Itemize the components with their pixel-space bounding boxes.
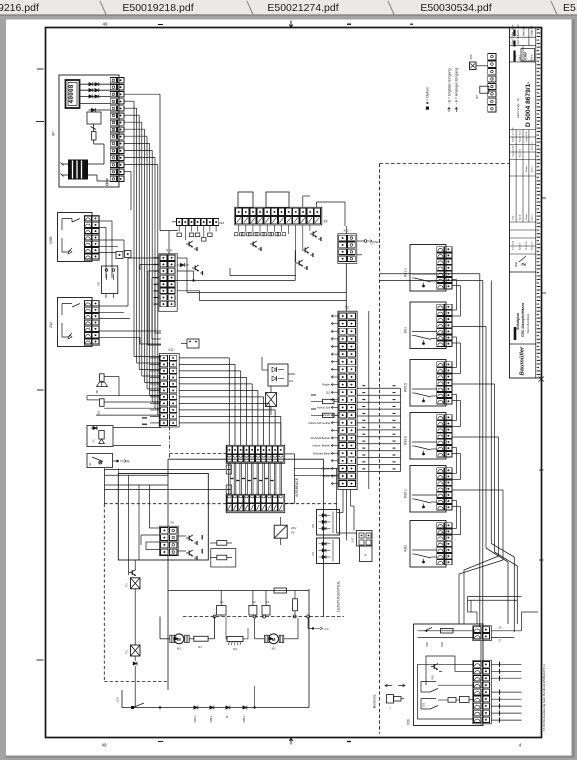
- X11 left stubs: [150, 357, 159, 359]
- svg-text:Datum: Datum: [525, 165, 528, 172]
- relay K80.1 box: [410, 466, 446, 513]
- X5 right transistor Q5: [178, 535, 186, 537]
- svg-text:9216.pdf: 9216.pdf: [0, 2, 39, 14]
- svg-text:K80: K80: [404, 545, 408, 551]
- svg-text:Lst 17.04: Lst 17.04: [512, 240, 515, 250]
- wire S1 right arrow B: [113, 460, 118, 462]
- connector X17: [357, 531, 373, 547]
- svg-text:Blatt: Blatt: [515, 262, 518, 267]
- transformer T1: [68, 160, 88, 180]
- junction dashed rail: [183, 616, 344, 618]
- module A1 display unit box: [59, 75, 119, 187]
- svg-text:Zust.: Zust.: [512, 215, 515, 220]
- display H1 40008: [66, 80, 80, 108]
- resistor R6: [217, 555, 227, 560]
- switch S31 loop: [421, 682, 436, 693]
- svg-text:K1: K1: [220, 600, 224, 604]
- tab bar: [0, 0, 577, 15]
- terminal X6: [116, 252, 123, 259]
- svg-text:Gepr. 20.4: Gepr. 20.4: [525, 131, 528, 142]
- connector X32 main strip: [473, 660, 492, 724]
- relay interconnect wires: [456, 280, 458, 311]
- svg-text:M: M: [177, 637, 181, 642]
- ribbon wire labels: [231, 478, 234, 480]
- svg-text:→D = Digitaler Eingang: →D = Digitaler Eingang: [448, 68, 452, 106]
- connector X2 tall strip: [338, 311, 357, 489]
- svg-text:B: B: [127, 460, 129, 464]
- long wire row middle: [170, 280, 296, 282]
- svg-text:Datum: Datum: [525, 213, 528, 220]
- relay K80.8 connector: [437, 415, 444, 420]
- switch S1 box: [87, 454, 113, 468]
- relay K80.8 contact: [415, 446, 432, 450]
- diode D10 beside X10: [180, 263, 184, 267]
- wire X6 X7 down: [111, 247, 113, 278]
- svg-text:X9: X9: [324, 220, 328, 224]
- tab separators: [100, 1, 106, 15]
- interface left tag boxes: [226, 465, 232, 474]
- connector X14 upper interface strip: [226, 445, 285, 463]
- wire X1 row wires right: [124, 93, 160, 95]
- title block outer: [510, 28, 542, 379]
- svg-text:S32: S32: [422, 702, 426, 707]
- svg-text:S1: S1: [88, 462, 92, 466]
- svg-text:+1.8: +1.8: [116, 697, 120, 703]
- svg-text:K3: K3: [266, 600, 270, 604]
- svg-text:R30: R30: [440, 642, 444, 647]
- X32 right wires with ticks: [491, 663, 521, 665]
- switch S2 on rail: [133, 703, 144, 708]
- title block header legal bars: [513, 30, 515, 37]
- wires to relay column upper: [380, 273, 453, 275]
- title block dense right text column: [535, 28, 537, 379]
- svg-text:Tag 21.4.09: Tag 21.4.09: [513, 145, 515, 157]
- svg-text:Datum 17.4.09: Datum 17.4.09: [512, 127, 515, 142]
- svg-text:INTERFACE: INTERFACE: [295, 477, 299, 497]
- cluster vertical feed wires: [104, 468, 106, 504]
- X17 lower box: [360, 546, 373, 562]
- svg-text:2.2: 2.2: [324, 627, 329, 631]
- relay K80.1 inner wires: [431, 501, 437, 503]
- svg-text:Aufsch.Soll: Aufsch.Soll: [317, 406, 330, 410]
- title block pointer tick: [542, 197, 547, 199]
- connector X4: [85, 301, 92, 306]
- svg-text:M: M: [272, 637, 276, 642]
- relay K81.1 box: [410, 245, 446, 292]
- nested corner wires below X10: [148, 318, 161, 345]
- svg-text:Aend 2: Aend 2: [519, 242, 522, 250]
- power supply U4 diag box: [274, 525, 287, 538]
- wires relay bottom to box top: [468, 596, 522, 598]
- X1 ground lead bottom: [106, 178, 108, 184]
- svg-text:Bearb. Kern: Bearb. Kern: [519, 130, 522, 142]
- emergency stop box S50: [470, 62, 477, 70]
- M1 terminal pads: [170, 635, 175, 642]
- X11 crossing wires right: [179, 357, 230, 359]
- svg-text:opt: opt: [475, 95, 479, 99]
- svg-text:Ers.d.: Ers.d.: [531, 54, 534, 61]
- X32 inner vertical bus: [443, 656, 445, 692]
- module A3 RS232 box: [58, 298, 93, 347]
- svg-text:M2: M2: [272, 647, 276, 651]
- transistor Q7 above F1: [129, 572, 132, 574]
- svg-text:gn²: gn²: [51, 130, 55, 136]
- svg-text:X30: X30: [407, 719, 411, 725]
- arrow pair direction: [385, 684, 392, 687]
- bus hatch right border: [400, 388, 402, 471]
- transistor Q8: [250, 243, 253, 245]
- relay K80.5 box: [410, 360, 446, 407]
- interface right bracket: [285, 454, 295, 503]
- diode module W1 box: [268, 364, 288, 386]
- relay K80.5 connector: [437, 362, 444, 367]
- fuse F3 box: [266, 393, 277, 407]
- svg-text:Drehzahl Betrieb: Drehzahl Betrieb: [311, 436, 331, 440]
- X9 leads to transistors: [288, 225, 290, 234]
- X10 left tag labels: [154, 257, 158, 259]
- svg-text:F1: F1: [125, 583, 129, 587]
- X2 left arrow stubs and labels: [332, 315, 338, 317]
- relay K81.1 inner wires: [431, 280, 437, 282]
- transistor Q9 beside X10: [192, 267, 195, 269]
- inner box lower-left: [118, 474, 208, 561]
- svg-text:Y1: Y1: [92, 439, 96, 443]
- loop wire rectangles above X9: [238, 192, 253, 208]
- fuse F1: [131, 578, 141, 589]
- wires X3 to right: [99, 220, 112, 222]
- svg-text:E50019218.pdf: E50019218.pdf: [122, 2, 193, 14]
- dashed feed line lower: [104, 503, 226, 505]
- svg-text:Aufsch- Betrieb: Aufsch- Betrieb: [312, 444, 330, 448]
- svg-text:E5: E5: [563, 2, 576, 14]
- sensor B2: [100, 399, 105, 407]
- svg-text:m: m: [95, 390, 99, 393]
- connector X10: [159, 254, 177, 311]
- connector X31 small strip: [473, 626, 492, 641]
- relay K81 box: [410, 302, 446, 349]
- svg-text:Schaltplan: Schaltplan: [516, 313, 520, 330]
- dashed feed line upper: [170, 453, 227, 455]
- wires under X8: [127, 258, 129, 306]
- wires entering box top: [480, 641, 482, 661]
- X31 internal wires switch: [418, 630, 473, 632]
- wire to X2 top: [187, 291, 346, 293]
- transformer leads: [62, 163, 68, 165]
- diodes below F2: [134, 656, 136, 661]
- relay K80.8 inner wires: [431, 448, 437, 450]
- X3 frame: [84, 216, 99, 261]
- wire labels 115: [142, 417, 147, 419]
- wire bus from X1 down-left bundle: [124, 100, 134, 102]
- resistor R5: [217, 541, 227, 546]
- svg-text:Ers.f.: Ers.f.: [519, 55, 522, 61]
- svg-text:V30: V30: [431, 675, 435, 680]
- svg-text:S: S: [364, 553, 366, 557]
- X5 left wires: [149, 527, 159, 529]
- relay K80.1 connector: [437, 468, 444, 473]
- A3 internal contacts: [62, 304, 72, 316]
- frame fold ticks left: [37, 68, 44, 70]
- resistor R2 with hatch pad: [227, 636, 243, 641]
- svg-text:Name br: Name br: [519, 148, 522, 157]
- svg-text:M1: M1: [177, 647, 181, 651]
- contact boxes K row: [217, 606, 227, 616]
- dashed border leistungsteil vertical left: [103, 504, 105, 682]
- wire top rail power: [168, 590, 309, 592]
- optocoupler U6 box: [317, 538, 340, 564]
- connector X3: [85, 216, 92, 221]
- svg-text:R1: R1: [198, 645, 202, 649]
- svg-text:CRC Stampfer/Hänne: CRC Stampfer/Hänne: [521, 303, 525, 337]
- sensor wires: [87, 395, 161, 397]
- X16 hanging leads: [178, 226, 180, 232]
- svg-text:R3: R3: [233, 647, 237, 651]
- module box around lower cluster: [167, 459, 169, 690]
- svg-text:Name: Name: [532, 213, 534, 220]
- X17 feed wires: [337, 532, 357, 534]
- wire rail verticals: [220, 591, 222, 599]
- wires X10 left: [131, 257, 159, 259]
- svg-text:Drehzahl Band: Drehzahl Band: [313, 451, 331, 455]
- wire X16 to A1 bus: [172, 221, 177, 223]
- resistor R31 R32: [448, 698, 456, 703]
- svg-text:3M1.2: 3M1.2: [193, 715, 197, 723]
- bottom rail wire: [122, 707, 309, 709]
- bus vertical crossing: [368, 311, 370, 489]
- transistor Q30: [431, 666, 434, 668]
- connector X16 strip: [177, 219, 182, 226]
- relay K80 connector: [437, 523, 444, 528]
- svg-text:Aufsch-Soll neutral: Aufsch-Soll neutral: [308, 421, 330, 425]
- switchbox X30 outer box: [414, 624, 484, 726]
- frame fold mark right: [539, 375, 545, 383]
- junction row contacts: [213, 615, 216, 618]
- connector X50 column: [488, 54, 496, 60]
- svg-text:3M4.1: 3M4.1: [209, 715, 213, 723]
- title block header cells: [510, 36, 536, 38]
- component X8 box: [102, 266, 118, 294]
- svg-text:X11: X11: [168, 348, 174, 352]
- relay K80 inner wires: [431, 556, 437, 558]
- svg-text:K81.1: K81.1: [404, 268, 408, 277]
- svg-text:2: 2: [522, 263, 528, 266]
- svg-text:CAD: CAD: [524, 52, 528, 60]
- svg-text:5V: 5V: [291, 531, 295, 535]
- connector X13: [338, 234, 357, 263]
- connector X11: [159, 354, 179, 428]
- wire diagonals to bottom box: [486, 548, 508, 624]
- option box X51: [480, 86, 489, 93]
- fuse F0: [92, 132, 97, 141]
- svg-text:K80.1: K80.1: [404, 489, 408, 498]
- svg-text:X16: X16: [219, 221, 225, 225]
- svg-text:Kern-Bordnetz: Kern-Bordnetz: [526, 313, 530, 333]
- svg-text:LEISTUNGSTEIL: LEISTUNGSTEIL: [336, 580, 341, 612]
- wires X10 right: [177, 257, 187, 259]
- interface ribbon wires: [228, 463, 230, 495]
- svg-text:3M4.2: 3M4.2: [242, 715, 246, 723]
- svg-text:Bordnetz: Bordnetz: [373, 694, 377, 708]
- svg-text:40008: 40008: [68, 84, 75, 103]
- transistor Q4: [186, 243, 189, 245]
- svg-text:S30: S30: [425, 642, 429, 647]
- wire Q outputs: [230, 275, 296, 277]
- dashed border top horizontal: [380, 163, 510, 165]
- svg-text:D 5004 8679/1-: D 5004 8679/1-: [525, 82, 532, 127]
- X2 right bus hatch lines: [357, 387, 400, 389]
- plug connector X40: [387, 695, 394, 704]
- relay K81 inner wires: [431, 338, 437, 340]
- title block table rows: [510, 136, 536, 138]
- X5 right transistor Q6: [178, 550, 186, 552]
- relay K81.1 contact: [415, 278, 432, 282]
- svg-text:Name br: Name br: [531, 241, 534, 250]
- dashed boundary x10 module: [169, 427, 171, 460]
- svg-text:K80.5: K80.5: [404, 383, 408, 392]
- X31 right wires: [491, 630, 521, 632]
- svg-text:49: 49: [101, 743, 107, 748]
- relay K80 box: [410, 521, 446, 568]
- svg-text:Techn. Ref: Techn. Ref: [517, 24, 520, 36]
- relay K0 contact box: [87, 112, 101, 124]
- svg-text:Abt. Nam: Abt. Nam: [511, 25, 515, 36]
- arrow out 2.2: [312, 627, 314, 629]
- svg-text:U5: U5: [311, 524, 315, 528]
- relay K80.5 contact: [415, 393, 432, 397]
- svg-text:49: 49: [102, 22, 108, 27]
- X9 hanging leads with terminals: [238, 225, 240, 232]
- svg-text:X2: X2: [345, 306, 349, 310]
- relay K80.5 inner wires: [431, 395, 437, 397]
- valve Y1 box: [87, 426, 113, 447]
- relay K80 contact: [415, 554, 432, 558]
- wire display to X1 rows: [80, 83, 111, 85]
- resistor R20: [323, 399, 335, 403]
- wire vertical into X10 top: [168, 231, 170, 254]
- motor M1: [174, 634, 184, 644]
- relay K80.1 contact: [415, 499, 432, 503]
- transistor Q2: [302, 249, 305, 251]
- fuse F2: [131, 645, 141, 656]
- A2 internal contacts: [62, 219, 72, 231]
- svg-text:→A = Analoger Eingang: →A = Analoger Eingang: [455, 68, 459, 106]
- connector X1 terminal strip: [110, 78, 116, 83]
- svg-text:K2: K2: [252, 600, 256, 604]
- relay K81.1 connector: [437, 247, 444, 252]
- transistor Q3: [296, 262, 299, 264]
- svg-text:302: 302: [97, 410, 101, 415]
- svg-text:Name ro: Name ro: [531, 141, 534, 150]
- relay K81 contact: [415, 336, 432, 340]
- title block mid columns: [515, 176, 517, 222]
- svg-text:USB: USB: [49, 236, 53, 244]
- switch S32 loop: [421, 699, 436, 710]
- svg-text:F2: F2: [125, 650, 129, 654]
- wire relay to fuse: [93, 124, 95, 132]
- terminal X7: [125, 251, 132, 258]
- svg-text:Urspr.: Urspr.: [514, 54, 517, 61]
- title text cell: [510, 343, 536, 345]
- resistor R21: [323, 413, 335, 417]
- relay right long wires: [380, 273, 480, 275]
- svg-text:Name: Name: [532, 165, 534, 172]
- svg-text:K80.8: K80.8: [404, 436, 408, 445]
- connector X15 lower interface strip: [226, 494, 285, 512]
- X9 top entries: [316, 202, 318, 207]
- svg-text:Betrieb: Betrieb: [322, 413, 331, 417]
- svg-text:X8: X8: [97, 282, 101, 286]
- svg-text:Urspr 204: Urspr 204: [531, 25, 534, 36]
- transistor Q1: [310, 233, 313, 235]
- X32 left internal circuit: [418, 663, 473, 665]
- svg-text:E50021274.pdf: E50021274.pdf: [267, 2, 338, 14]
- rail junction dots: [159, 706, 161, 708]
- svg-text:X3: X3: [370, 241, 374, 245]
- connector X5: [160, 526, 179, 556]
- svg-text:■ = Option: ■ = Option: [426, 87, 430, 104]
- svg-text:U6: U6: [311, 552, 315, 556]
- M2 terminal pads: [264, 635, 269, 642]
- svg-text:Wst 10.4: Wst 10.4: [512, 34, 515, 44]
- svg-text:S50: S50: [469, 54, 473, 59]
- resistor R8 horizontal: [274, 588, 287, 593]
- svg-text:W1: W1: [289, 379, 294, 383]
- svg-text:Zeichnungs - Nr.: Zeichnungs - Nr.: [516, 97, 520, 118]
- svg-text:21.04.09: 21.04.09: [526, 241, 528, 250]
- relay K81 connector: [437, 304, 444, 309]
- svg-text:X5: X5: [170, 521, 174, 525]
- module A2 USB box: [58, 213, 93, 262]
- component R15 box: [187, 339, 199, 348]
- wires below X2: [342, 490, 344, 513]
- sheet number cell: [510, 271, 536, 273]
- optocoupler U5 box: [317, 510, 340, 536]
- svg-text:X17: X17: [351, 537, 355, 543]
- svg-text:115: 115: [326, 390, 331, 394]
- resistor R30: [441, 628, 454, 633]
- rail diode symbols: [194, 706, 198, 710]
- long vertical right wires: [513, 557, 515, 638]
- svg-text:Blatt Nr 2: Blatt Nr 2: [523, 25, 526, 36]
- cluster horizontal feed wires: [105, 469, 227, 471]
- X13 right wires CN13: [357, 240, 364, 242]
- resistor R7: [194, 636, 208, 641]
- svg-text:24V: 24V: [291, 526, 296, 530]
- motor M2: [269, 634, 279, 644]
- connector X9 double row strip: [235, 207, 322, 225]
- svg-text:K81: K81: [404, 327, 408, 333]
- sensor B1 m: [100, 374, 105, 382]
- dashed border leistungsteil bottom: [104, 681, 168, 683]
- svg-text:E50030534.pdf: E50030534.pdf: [420, 2, 491, 14]
- dashed border bordnetz vertical: [379, 164, 381, 734]
- svg-text:Baumüller: Baumüller: [520, 346, 526, 376]
- svg-text:17.04.09 Aenderung Kern-Bordn: 17.04.09 Aenderung Kern-Bordnetz E500212…: [542, 664, 546, 731]
- wires right of interface to X17: [294, 467, 336, 469]
- wire X13 up: [345, 226, 347, 234]
- relay K80.8 box: [410, 413, 446, 460]
- wires X4 right: [99, 305, 128, 307]
- resistor R9 vertical: [293, 599, 298, 611]
- svg-text:Gez 11.4: Gez 11.4: [517, 34, 520, 44]
- svg-text:Aend.: Aend.: [519, 214, 522, 220]
- svg-text:Regler: Regler: [322, 383, 330, 387]
- svg-text:232: 232: [49, 322, 53, 328]
- wire Q5 Q6 bars: [201, 535, 203, 540]
- wire display row4: [80, 103, 111, 105]
- wire X13 down to X2: [345, 263, 347, 311]
- box around R5 R6: [211, 549, 236, 568]
